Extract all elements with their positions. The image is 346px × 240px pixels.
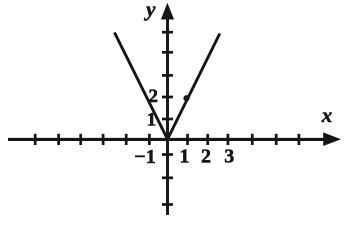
y-axis: [166, 16, 169, 215]
y tick -2: [162, 176, 173, 179]
x tick 6: [298, 134, 301, 145]
svg-text:−1: −1: [134, 146, 155, 168]
x-axis arrowhead: [323, 132, 341, 146]
svg-text:x: x: [321, 103, 333, 127]
x-axis: [8, 138, 326, 141]
svg-text:2: 2: [201, 146, 211, 168]
x tick -4: [79, 134, 82, 145]
x tick -2: [125, 134, 128, 145]
svg-text:y: y: [143, 0, 156, 21]
x tick -5: [57, 134, 60, 145]
svg-text:2: 2: [149, 86, 159, 107]
y tick -3: [162, 203, 173, 206]
x tick 4: [251, 134, 254, 145]
y tick 2: [162, 96, 173, 99]
y tick 4: [162, 51, 173, 54]
x tick -3: [102, 134, 105, 145]
graph right branch y=2|x|: [168, 34, 220, 140]
svg-text:1: 1: [147, 109, 157, 130]
svg-text:3: 3: [224, 146, 234, 168]
x tick 5: [275, 134, 278, 145]
graph left branch y=2|x|: [115, 33, 168, 140]
y tick 5: [162, 31, 173, 34]
x tick -6: [34, 134, 37, 145]
svg-text:1: 1: [180, 146, 190, 168]
point (1,2): [183, 95, 189, 101]
y tick 1: [162, 118, 173, 121]
x tick -1: [148, 134, 151, 145]
x tick 3: [227, 134, 230, 145]
y tick 3: [162, 74, 173, 77]
x tick 1: [186, 134, 189, 145]
y tick -1: [162, 153, 173, 156]
x tick 2: [206, 134, 209, 145]
y-axis arrowhead: [161, 3, 174, 20]
